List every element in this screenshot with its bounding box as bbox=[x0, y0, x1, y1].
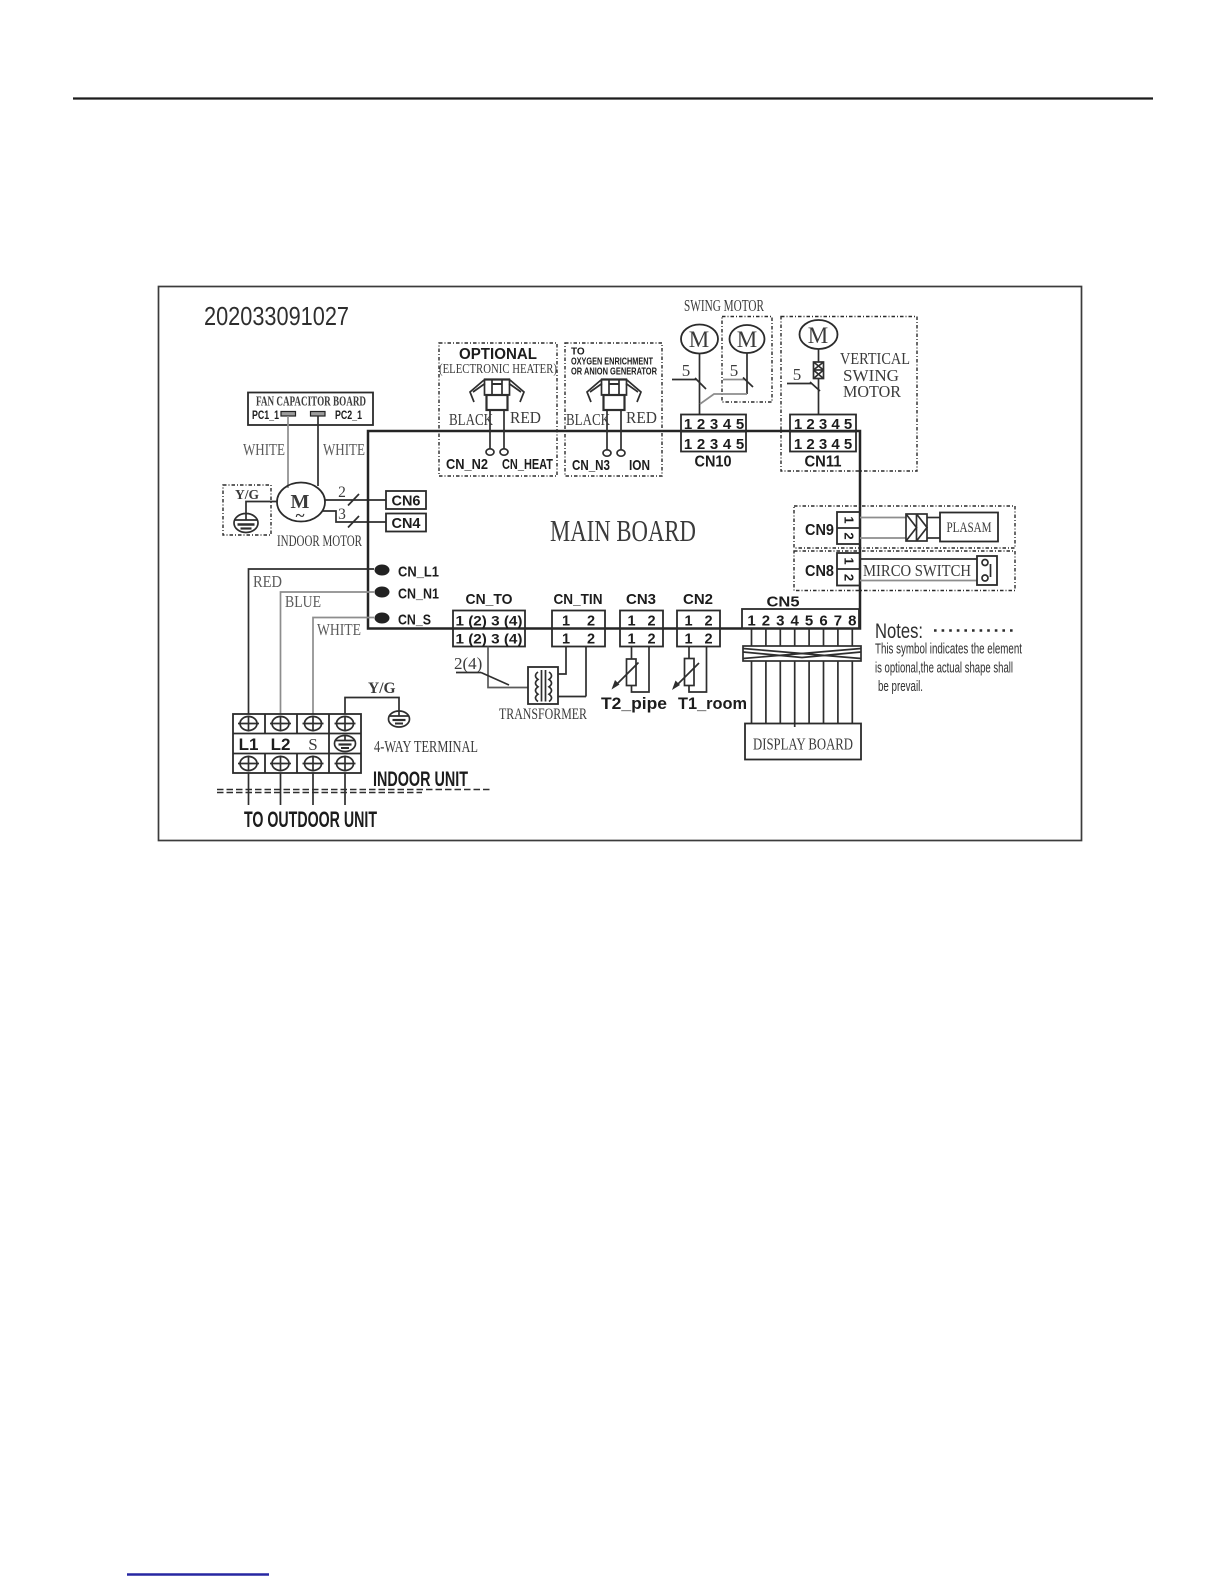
terminal screws top row bbox=[238, 716, 356, 732]
svg-text:CN_N1: CN_N1 bbox=[398, 586, 439, 603]
svg-text:1: 1 bbox=[794, 436, 802, 453]
diagram frame bbox=[159, 287, 1082, 841]
svg-text:CN9: CN9 bbox=[805, 522, 834, 539]
svg-text:5: 5 bbox=[736, 416, 744, 433]
svg-text:BLACK: BLACK bbox=[566, 410, 610, 429]
svg-text:3: 3 bbox=[776, 613, 784, 630]
svg-text:4: 4 bbox=[831, 436, 840, 453]
wire M1 to CN10 pin2 bbox=[699, 354, 701, 415]
svg-text:2: 2 bbox=[806, 416, 814, 433]
svg-text:4-WAY TERMINAL: 4-WAY TERMINAL bbox=[374, 737, 478, 756]
svg-text:CN_L1: CN_L1 bbox=[398, 564, 439, 581]
node CN_L1 bbox=[375, 564, 440, 581]
swing motor M2 bbox=[730, 325, 765, 353]
wire M2 jog to M1 line bbox=[700, 394, 747, 404]
svg-text:T2_pipe: T2_pipe bbox=[601, 695, 667, 713]
main board outline bbox=[368, 431, 860, 629]
svg-text:Y/G: Y/G bbox=[368, 680, 396, 697]
svg-text:OR ANION GENERATOR: OR ANION GENERATOR bbox=[571, 367, 658, 378]
wire 3 motor to CN4 bbox=[322, 511, 386, 522]
connector CN2 bbox=[677, 591, 720, 648]
svg-text:3: 3 bbox=[338, 506, 346, 523]
svg-text:1 (2) 3 (4): 1 (2) 3 (4) bbox=[456, 613, 523, 629]
node CN_S bbox=[375, 612, 432, 629]
svg-text:DISPLAY BOARD: DISPLAY BOARD bbox=[753, 735, 853, 754]
connector CN6 bbox=[386, 491, 426, 509]
node CN_N1 bbox=[375, 586, 440, 603]
svg-text:1 (2) 3 (4): 1 (2) 3 (4) bbox=[456, 631, 523, 647]
svg-text:CN_TIN: CN_TIN bbox=[554, 591, 603, 608]
wire 2 motor to CN6 bbox=[325, 499, 386, 501]
svg-text:2: 2 bbox=[806, 436, 814, 453]
connector CN10 bbox=[681, 415, 746, 471]
svg-text:202033091027: 202033091027 bbox=[204, 301, 349, 331]
header rule bbox=[73, 97, 1153, 99]
wire white PC2_1 to motor bbox=[317, 416, 319, 486]
PLASAM box bbox=[940, 513, 998, 542]
ion wires BLACK / RED bbox=[606, 410, 608, 450]
svg-text:6: 6 bbox=[819, 613, 827, 630]
svg-text:CN_HEAT: CN_HEAT bbox=[502, 456, 553, 473]
svg-text:ION: ION bbox=[629, 457, 650, 474]
svg-text:WHITE: WHITE bbox=[243, 440, 285, 459]
wire white PC1_1 to motor bbox=[287, 416, 289, 488]
svg-text:BLUE: BLUE bbox=[285, 592, 321, 611]
svg-text:3: 3 bbox=[819, 416, 827, 433]
ribbon cable twist band bbox=[743, 646, 861, 661]
ground (indoor motor) bbox=[234, 514, 258, 533]
svg-text:1: 1 bbox=[627, 632, 635, 648]
svg-text:RED: RED bbox=[253, 572, 282, 591]
connector CN3 bbox=[620, 591, 663, 648]
fan capacitor board box bbox=[248, 393, 373, 426]
thermistor T1_room bbox=[672, 647, 747, 714]
svg-text:CN3: CN3 bbox=[626, 591, 656, 608]
svg-text:1: 1 bbox=[842, 557, 857, 564]
svg-text:L2: L2 bbox=[271, 735, 291, 754]
svg-text:T1_room: T1_room bbox=[678, 695, 747, 713]
svg-text:5: 5 bbox=[844, 416, 852, 433]
wire M3 bbox=[818, 349, 820, 362]
svg-text:M: M bbox=[689, 327, 709, 352]
svg-text:RED: RED bbox=[510, 408, 541, 427]
connector CN11 bbox=[790, 415, 856, 471]
svg-text:OPTIONAL: OPTIONAL bbox=[459, 346, 537, 363]
oxygen/anion generator dashed box bbox=[565, 343, 662, 476]
svg-text:Y/G: Y/G bbox=[235, 487, 260, 502]
svg-text:5: 5 bbox=[730, 361, 739, 380]
4-way terminal block bbox=[233, 714, 361, 773]
svg-text:~: ~ bbox=[296, 506, 305, 525]
svg-text:4: 4 bbox=[791, 613, 800, 630]
svg-text:TRANSFORMER: TRANSFORMER bbox=[499, 706, 588, 723]
svg-text:2: 2 bbox=[762, 613, 770, 630]
svg-text:be prevail.: be prevail. bbox=[878, 678, 923, 695]
connector CN4 bbox=[386, 514, 426, 532]
transformer T1 bbox=[499, 667, 588, 723]
svg-text:M: M bbox=[737, 327, 757, 352]
svg-text:1: 1 bbox=[747, 613, 755, 630]
svg-text:PC2_1: PC2_1 bbox=[335, 410, 362, 422]
svg-text:WHITE: WHITE bbox=[323, 440, 365, 459]
svg-text:2: 2 bbox=[587, 614, 595, 630]
Y/G dashed box bbox=[223, 485, 271, 535]
svg-text:1: 1 bbox=[684, 614, 692, 630]
swing motor M2 dashed box bbox=[722, 317, 772, 403]
vertical swing motor dashed box bbox=[781, 317, 917, 472]
connector CN9 bbox=[837, 512, 860, 544]
svg-text:CN8: CN8 bbox=[805, 563, 834, 580]
svg-text:CN_N2: CN_N2 bbox=[446, 456, 488, 473]
svg-text:FAN CAPACITOR BOARD: FAN CAPACITOR BOARD bbox=[256, 394, 366, 409]
svg-text:BLACK: BLACK bbox=[449, 410, 493, 429]
svg-text:2: 2 bbox=[697, 416, 705, 433]
indoor/outdoor boundary dashed line bbox=[217, 789, 490, 791]
svg-text:MAIN BOARD: MAIN BOARD bbox=[550, 513, 696, 548]
svg-text:2: 2 bbox=[842, 574, 857, 581]
wire motor to ground bbox=[246, 502, 277, 515]
terminal screws bottom row bbox=[238, 756, 356, 772]
svg-text:(ELECTRONIC HEATER): (ELECTRONIC HEATER) bbox=[439, 362, 557, 377]
micro switch bbox=[860, 556, 997, 585]
vertical swing motor M3 bbox=[800, 320, 838, 349]
svg-text:1: 1 bbox=[684, 436, 692, 453]
svg-text:5: 5 bbox=[844, 436, 852, 453]
connector CN5 bbox=[742, 594, 859, 630]
wire Y/G to ground bbox=[345, 698, 399, 715]
swing motor M1 bbox=[681, 325, 718, 354]
wires transformer to CN_TIN bbox=[558, 647, 566, 675]
svg-text:CN4: CN4 bbox=[392, 515, 422, 532]
svg-text:CN10: CN10 bbox=[695, 454, 732, 471]
svg-text:1: 1 bbox=[562, 632, 570, 648]
wire CN_TO to transformer bbox=[488, 647, 528, 688]
svg-text:5: 5 bbox=[736, 436, 744, 453]
wire BLUE bbox=[281, 592, 375, 714]
connector CN_TIN bbox=[552, 591, 605, 648]
svg-text:CN6: CN6 bbox=[392, 493, 421, 510]
svg-text:4: 4 bbox=[723, 416, 732, 433]
svg-text:3: 3 bbox=[710, 416, 718, 433]
svg-text:RED: RED bbox=[626, 408, 657, 427]
svg-text:2: 2 bbox=[338, 484, 346, 501]
notes bbox=[875, 620, 1023, 695]
svg-text:1: 1 bbox=[794, 416, 802, 433]
svg-text:3: 3 bbox=[710, 436, 718, 453]
connector CN_TO bbox=[453, 591, 525, 647]
svg-text:WHITE: WHITE bbox=[317, 620, 361, 639]
svg-text:8: 8 bbox=[848, 613, 856, 630]
svg-text:TO OUTDOOR UNIT: TO OUTDOOR UNIT bbox=[244, 807, 377, 832]
thermistor T2_pipe bbox=[601, 647, 667, 714]
svg-text:3: 3 bbox=[819, 436, 827, 453]
svg-text:CN_TO: CN_TO bbox=[466, 591, 513, 608]
connector CN8 bbox=[837, 553, 860, 586]
optional electronic heater dashed box bbox=[439, 343, 557, 476]
svg-text:4: 4 bbox=[723, 436, 732, 453]
indoor motor M bbox=[277, 483, 325, 522]
svg-text:1: 1 bbox=[842, 516, 857, 523]
svg-text:5: 5 bbox=[793, 365, 802, 384]
svg-text:This symbol indicates the elem: This symbol indicates the element bbox=[875, 641, 1023, 658]
wires to outdoor unit bbox=[249, 773, 346, 805]
heater plug connector bbox=[470, 380, 524, 411]
svg-text:L1: L1 bbox=[239, 735, 259, 754]
svg-text:CN_S: CN_S bbox=[398, 612, 431, 629]
svg-text:SWING MOTOR: SWING MOTOR bbox=[684, 296, 764, 315]
CN9 dashed box bbox=[794, 506, 1015, 548]
svg-text:2(4): 2(4) bbox=[454, 654, 482, 673]
svg-text:2: 2 bbox=[704, 632, 712, 648]
svg-text:2: 2 bbox=[704, 614, 712, 630]
CN8 dashed box bbox=[794, 551, 1015, 591]
svg-text:CN_N3: CN_N3 bbox=[572, 457, 610, 474]
svg-text:M: M bbox=[808, 323, 828, 348]
svg-text:PC1_1: PC1_1 bbox=[252, 410, 279, 422]
svg-text:MIRCO SWITCH: MIRCO SWITCH bbox=[863, 561, 971, 580]
svg-text:CN2: CN2 bbox=[683, 591, 713, 608]
svg-text:is optional,the actual shape s: is optional,the actual shape shall bbox=[875, 660, 1013, 677]
svg-text:INDOOR MOTOR: INDOOR MOTOR bbox=[277, 533, 362, 550]
terminal ground symbol bbox=[335, 736, 356, 752]
svg-text:S: S bbox=[308, 735, 317, 754]
wire M2 bbox=[746, 353, 748, 394]
svg-text:CN5: CN5 bbox=[767, 594, 800, 611]
ground (terminal) bbox=[389, 711, 410, 728]
svg-text:2: 2 bbox=[647, 632, 655, 648]
wire fuse to CN11 bbox=[818, 379, 820, 415]
svg-text:2: 2 bbox=[647, 614, 655, 630]
svg-text:1: 1 bbox=[684, 632, 692, 648]
svg-text:5: 5 bbox=[682, 361, 691, 380]
svg-text:5: 5 bbox=[805, 613, 813, 630]
footer link line bbox=[127, 1573, 269, 1575]
display board bbox=[745, 724, 861, 760]
CN5 pin wires bbox=[752, 629, 853, 647]
plasma generator symbol bbox=[906, 514, 927, 541]
wire WHITE bbox=[313, 618, 374, 715]
svg-text:CN11: CN11 bbox=[805, 454, 842, 471]
svg-text:1: 1 bbox=[684, 416, 692, 433]
svg-text:1: 1 bbox=[562, 614, 570, 630]
svg-text:4: 4 bbox=[831, 416, 840, 433]
thermal protector (fuse) bbox=[814, 362, 824, 379]
heater wires BLACK / RED bbox=[489, 410, 491, 449]
svg-text:2: 2 bbox=[587, 632, 595, 648]
svg-text:2: 2 bbox=[842, 532, 857, 539]
svg-text:2: 2 bbox=[697, 436, 705, 453]
wire RED bbox=[249, 569, 375, 714]
wires CN9 to plasma bbox=[860, 517, 906, 519]
svg-text:1: 1 bbox=[627, 614, 635, 630]
ion plug connector bbox=[587, 380, 641, 411]
svg-text:7: 7 bbox=[834, 613, 842, 630]
display cable wires bbox=[752, 661, 853, 727]
svg-text:INDOOR UNIT: INDOOR UNIT bbox=[373, 768, 468, 791]
svg-text:PLASAM: PLASAM bbox=[947, 520, 992, 536]
svg-text:MOTOR: MOTOR bbox=[843, 382, 902, 401]
